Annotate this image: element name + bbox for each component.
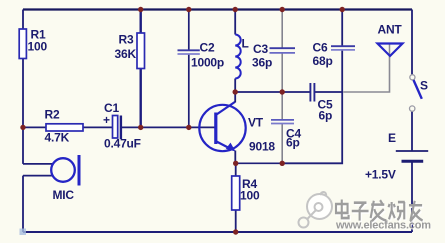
resistor R3 [115, 10, 145, 128]
svg-text:100: 100 [28, 40, 48, 54]
svg-text:R2: R2 [45, 108, 60, 122]
svg-text:L: L [242, 37, 249, 51]
wire left rail lower [22, 176, 24, 232]
svg-text:C6: C6 [313, 41, 328, 55]
svg-text:0.47uF: 0.47uF [104, 137, 141, 151]
node top-R3 [138, 7, 143, 12]
wire bottom-left corner junction mark [20, 229, 27, 236]
svg-text:36K: 36K [115, 47, 137, 61]
svg-text:S: S [420, 79, 428, 93]
node C2-base [186, 125, 191, 130]
svg-text:C2: C2 [200, 41, 215, 55]
node R3-base [138, 125, 143, 130]
svg-text:R3: R3 [119, 33, 134, 47]
battery E [365, 131, 428, 182]
svg-text:+1.5V: +1.5V [365, 168, 396, 182]
inductor L [235, 10, 248, 93]
watermark text 电子发烧友 [337, 201, 424, 223]
capacitor C1 [103, 101, 141, 151]
svg-text:6p: 6p [319, 109, 333, 123]
svg-text:6p: 6p [286, 136, 300, 150]
capacitor C2 [178, 10, 225, 128]
watermark logo [299, 192, 333, 227]
wire collector row [235, 91, 342, 93]
svg-text:VT: VT [248, 116, 264, 130]
wire base line (R2/C1 row) [23, 126, 215, 128]
microphone MIC [23, 155, 79, 202]
svg-text:MIC: MIC [53, 188, 75, 202]
svg-text:ANT: ANT [378, 23, 403, 37]
node top-C6 [340, 7, 345, 12]
capacitor C3 [252, 10, 295, 93]
node top-C2 [186, 7, 191, 12]
resistor R4 [232, 163, 260, 232]
wire top rail [23, 8, 412, 10]
svg-text:C3: C3 [253, 42, 268, 56]
svg-text:68p: 68p [313, 54, 333, 68]
transistor VT [199, 92, 275, 163]
svg-text:4.7K: 4.7K [45, 131, 70, 145]
node C3-C4 [280, 89, 285, 94]
node left-R2 [20, 125, 25, 130]
wire emitter row [236, 162, 283, 164]
wire bottom rail [23, 231, 412, 233]
wire right rail mid [411, 111, 413, 150]
wire left rail upper [22, 10, 24, 164]
svg-text:36p: 36p [252, 56, 272, 70]
svg-text:100: 100 [240, 189, 260, 203]
antenna ANT [378, 23, 403, 57]
resistor R1 [19, 28, 47, 59]
wire antenna feed (gray) [343, 56, 389, 93]
svg-text:www.elecfans.com: www.elecfans.com [335, 220, 431, 232]
node L-collector [233, 89, 238, 94]
svg-text:E: E [388, 131, 396, 145]
node R4-ground [233, 229, 238, 234]
node C4-C6 [280, 161, 285, 166]
wire right rail lower [411, 163, 413, 233]
node top-C3 [280, 7, 285, 12]
capacitor C5 [310, 83, 333, 123]
svg-text:+: + [103, 113, 110, 127]
capacitor C4 [271, 92, 301, 163]
node top-L [233, 7, 238, 12]
switch S [410, 75, 429, 112]
capacitor C6 [282, 10, 355, 164]
node emitter-R4 [233, 161, 238, 166]
svg-text:9018: 9018 [249, 140, 275, 154]
resistor R2 [45, 108, 84, 145]
svg-text:1000p: 1000p [191, 56, 224, 70]
wire right rail upper [411, 10, 413, 75]
